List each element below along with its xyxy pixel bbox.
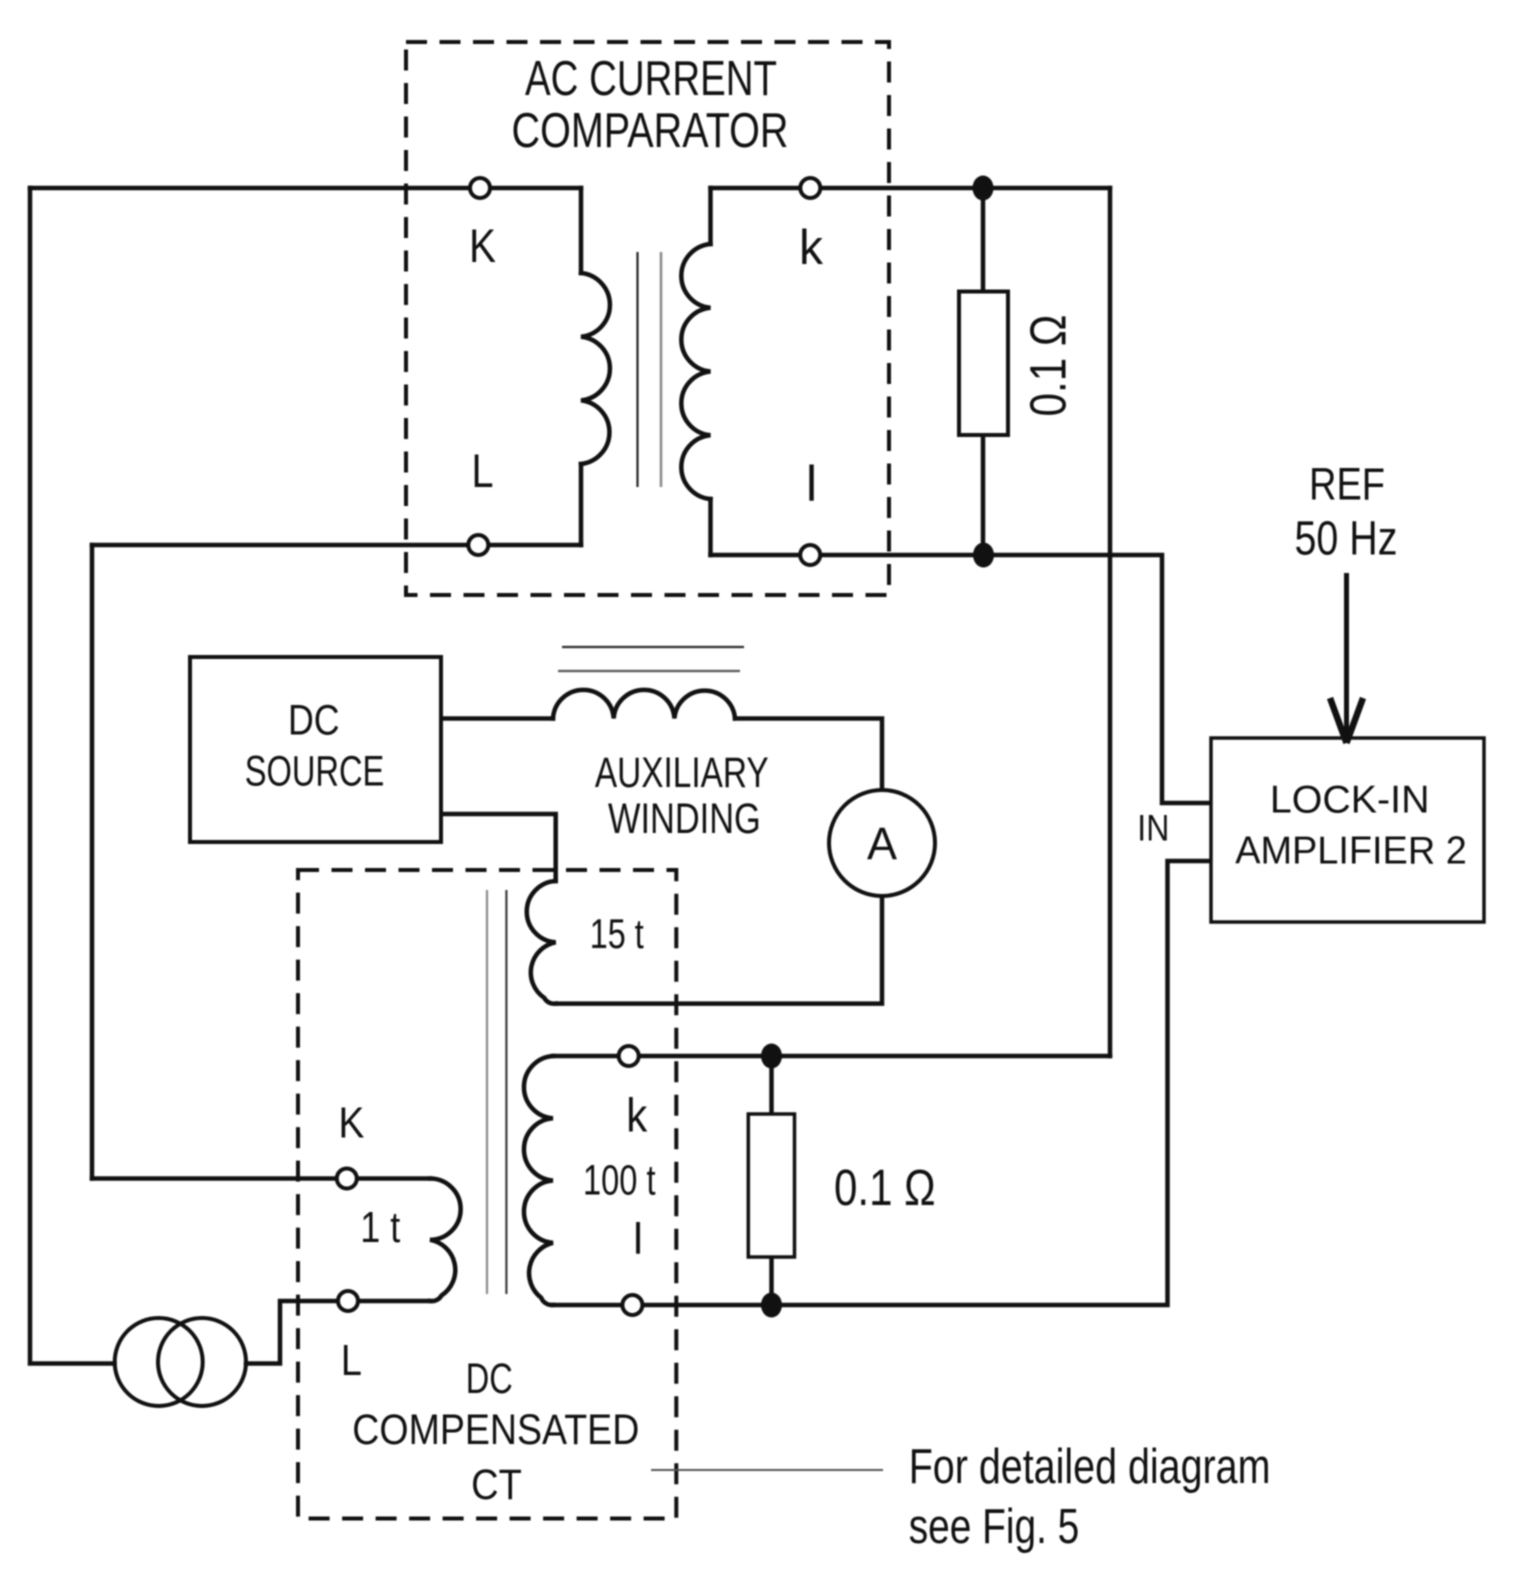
wire long vertical x=1110	[1108, 188, 1113, 1056]
winding W1 primary (comparator left)	[581, 273, 610, 464]
svg-text:IN: IN	[1137, 808, 1169, 849]
wire resistor R1 bottom lead	[981, 435, 986, 555]
wire left rail	[30, 188, 115, 1364]
winding 100t	[524, 1056, 553, 1305]
wire aux to ammeter	[735, 719, 882, 791]
wire resistor R1 top lead	[981, 188, 986, 292]
terminal K of DC CT	[337, 1169, 357, 1189]
pointer line to note	[651, 1469, 883, 1471]
wire resistor R2 top lead	[769, 1056, 774, 1115]
wire DC source top lead	[441, 716, 553, 721]
core of DC compensated CT	[487, 890, 506, 1294]
terminal k comparator	[800, 178, 820, 198]
terminal L of DC CT	[338, 1291, 358, 1311]
winding 1t	[430, 1179, 461, 1302]
wire left mid rail down	[90, 545, 95, 1179]
svg-text:K: K	[469, 219, 496, 272]
inductor auxiliary winding	[553, 690, 735, 719]
wire L (comparator L to left)	[92, 543, 581, 548]
AC source G1	[115, 1318, 246, 1406]
svg-text:DC: DC	[288, 696, 340, 744]
svg-text:0.1 Ω: 0.1 Ω	[834, 1159, 936, 1216]
svg-text:COMPARATOR: COMPARATOR	[512, 104, 789, 158]
junction dot node l / R1 bottom	[973, 543, 994, 568]
svg-text:see Fig. 5: see Fig. 5	[909, 1500, 1080, 1554]
terminal l of 100t winding	[622, 1295, 642, 1315]
wire K top (comparator K to left rail)	[30, 186, 581, 191]
wire into right winding	[708, 188, 713, 244]
terminal l comparator	[800, 545, 820, 565]
svg-text:K: K	[338, 1099, 364, 1148]
svg-text:LOCK-IN: LOCK-IN	[1270, 779, 1430, 822]
svg-text:k: k	[799, 221, 823, 275]
winding 15t	[527, 881, 556, 1004]
svg-text:SOURCE: SOURCE	[245, 747, 385, 795]
winding W2 secondary (comparator right)	[681, 244, 710, 499]
wire CT L	[246, 1301, 430, 1364]
box LOCK-IN AMPLIFIER 2	[1211, 738, 1484, 922]
svg-text:AMPLIFIER 2: AMPLIFIER 2	[1235, 830, 1467, 873]
svg-text:1 t: 1 t	[360, 1203, 400, 1252]
svg-text:WINDING: WINDING	[608, 795, 761, 843]
terminal k of 100t winding	[619, 1046, 639, 1066]
wire 100t top	[553, 1054, 1110, 1059]
dashed box DC compensated CT	[298, 870, 676, 1519]
svg-text:COMPENSATED: COMPENSATED	[352, 1406, 639, 1454]
svg-text:L: L	[341, 1336, 362, 1385]
svg-text:l: l	[633, 1214, 643, 1263]
terminal L comparator	[468, 535, 488, 555]
svg-text:AUXILIARY: AUXILIARY	[595, 749, 769, 797]
svg-text:100 t: 100 t	[583, 1157, 656, 1205]
core of AC current comparator	[638, 252, 662, 487]
svg-text:0.1 Ω: 0.1 Ω	[1020, 315, 1077, 417]
resistor R2 0.1 ohm (lower)	[748, 1114, 794, 1257]
svg-text:l: l	[806, 456, 817, 512]
junction dot node 100t k / R2 top	[761, 1044, 782, 1069]
svg-text:CT: CT	[471, 1461, 522, 1509]
wire resistor R2 bottom lead	[769, 1257, 774, 1305]
wire left winding bottom	[579, 464, 584, 545]
ammeter A	[829, 790, 935, 896]
svg-text:15 t: 15 t	[590, 910, 644, 957]
svg-text:REF: REF	[1309, 458, 1385, 509]
core of auxiliary winding	[558, 647, 744, 671]
svg-text:k: k	[626, 1089, 647, 1142]
junction dot node top (k / R1 / rail)	[973, 176, 994, 201]
svg-text:L: L	[472, 444, 494, 497]
REF arrow	[1330, 573, 1363, 743]
svg-text:A: A	[867, 818, 897, 869]
wire 100t bottom to lock-in IN lower	[553, 861, 1213, 1305]
wire CT K	[92, 1176, 430, 1181]
svg-text:For detailed diagram: For detailed diagram	[909, 1440, 1271, 1494]
box DC SOURCE	[190, 657, 441, 842]
wire l to lock-in IN upper	[711, 555, 1214, 803]
wire right winding bottom	[708, 499, 713, 555]
svg-text:DC: DC	[466, 1355, 513, 1403]
terminal K comparator	[470, 178, 490, 198]
dashed box AC current comparator	[406, 42, 889, 595]
wire into left winding top	[579, 188, 584, 273]
wire k (comparator k to right)	[711, 186, 1111, 191]
wire DC source bottom lead	[441, 814, 556, 881]
resistor R1 0.1 ohm (upper)	[959, 292, 1008, 436]
junction dot node 100t l / R2 bottom	[761, 1293, 782, 1318]
wire ammeter bottom to 15t	[556, 896, 882, 1004]
svg-text:AC CURRENT: AC CURRENT	[525, 52, 777, 106]
svg-text:50 Hz: 50 Hz	[1295, 512, 1398, 565]
